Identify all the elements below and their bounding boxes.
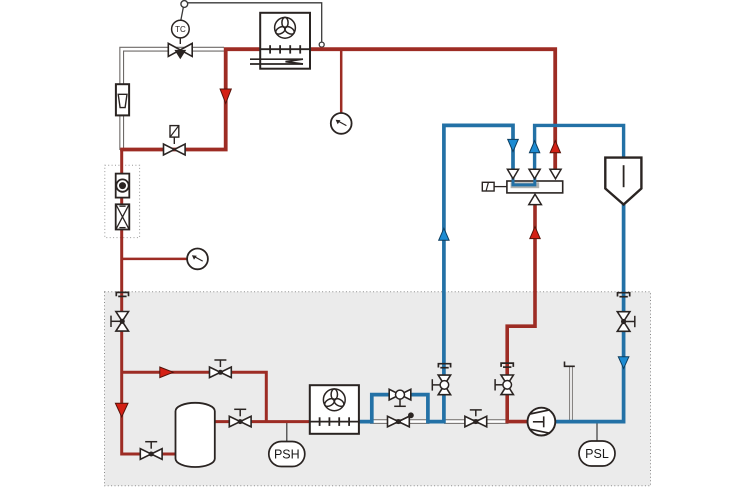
pressure switch PSH (269, 442, 305, 467)
filter F1 (square with cross) (116, 204, 130, 229)
mixing valve port A (507, 169, 518, 179)
union fitting separator drop (618, 293, 630, 297)
blue pipe: cold riser to mixing valve (444, 125, 513, 423)
TC valve plug (solid) (174, 50, 186, 59)
heater element coil (250, 59, 303, 64)
signal connector circle left (181, 1, 188, 8)
mixing valve port D (bottom) (529, 194, 542, 204)
red pipe: main hot loop top (120, 49, 555, 170)
svg-text:PSH: PSH (274, 448, 300, 462)
mixing valve port B (529, 169, 540, 179)
arrow red right (bypass branch) (160, 367, 173, 378)
arrow blue down (return into mixing valve) (508, 139, 519, 151)
mixing valve actuator (482, 182, 507, 191)
white pipe: drain segment 1 (outline) (370, 419, 430, 424)
control valve V10 (cold riser, vertical circle type) (432, 375, 450, 395)
red pipe: boiler outlet to fan-coil (213, 420, 311, 423)
signal wire TC to heater (186, 3, 321, 42)
signal wire PSH (286, 422, 288, 442)
union fitting left riser (116, 292, 128, 296)
drain valve V7 (capped) (388, 412, 414, 427)
union fitting cold riser (438, 364, 450, 368)
signal connector circle right (319, 42, 324, 47)
arrow red up (pump to mixing valve) (530, 227, 540, 239)
TC valve stem (179, 38, 181, 44)
shaded plant-room area (105, 292, 651, 486)
shut-off valve V12 (separator drop, vertical) (617, 312, 635, 332)
heater fan impeller (274, 17, 295, 38)
arrow blue up (cold riser) (439, 228, 449, 240)
blue pipe: mixing valve to separator tank (535, 125, 624, 170)
fan-coil unit box U2 (310, 385, 359, 434)
arrow red down (top branch) (220, 89, 231, 103)
arrow red up (hot riser to top main) (550, 141, 560, 153)
red pipe: left boiler drop (122, 150, 178, 455)
mixing valve M1 body (507, 176, 563, 193)
air separator tank T1 (605, 158, 641, 205)
shut-off valve V3 (left riser, vertical) (111, 312, 129, 332)
white pipe: TC valve run (outline) (122, 49, 224, 150)
sensor top bar (565, 362, 575, 367)
svg-text:PSL: PSL (585, 447, 609, 461)
union fitting hot riser (501, 363, 513, 367)
signal wire PSL (596, 422, 598, 442)
heater unit box U1 (260, 13, 310, 69)
controller TC (172, 20, 190, 38)
red pipe: mixing valve to pump (507, 204, 535, 422)
arrow blue down (separator drop) (618, 357, 629, 369)
pressure switch PSL (579, 441, 615, 466)
white pipe: suction segment 2 (outline) (444, 419, 509, 424)
signal wire TC drop (181, 7, 184, 21)
pressure gauge PI1 (top) (331, 113, 352, 134)
shut-off valve V9 (pump suction) (465, 410, 487, 427)
blue pipe: fan-coil out bypass (359, 395, 446, 422)
pressure gauge PI2 (left) (187, 249, 208, 270)
mixing valve port C (550, 169, 561, 179)
red pipe: gauge stub left (122, 258, 188, 261)
red pipe: gauge stub top (340, 51, 343, 114)
dotted box around filter unit (105, 165, 140, 237)
TC control valve V1 (168, 43, 192, 56)
bypass balancing valve V8 (circle type) (389, 389, 411, 406)
drain valve V5 (boiler inlet) (140, 442, 162, 460)
svg-text:TC: TC (175, 25, 186, 34)
solenoid valve V2 (164, 144, 186, 155)
control valve V11 (hot riser, vertical circle type) (495, 375, 513, 395)
shut-off valve V6 (boiler outlet) (229, 409, 251, 427)
arrow red down (boiler drop) (115, 403, 128, 417)
boiler tank B1 (176, 403, 215, 467)
pump unit P1 (square with impeller dot) (116, 174, 130, 198)
rotameter FI (116, 84, 129, 115)
balancing valve V4 (bypass branch) (210, 360, 232, 378)
fan-coil impeller (323, 389, 345, 411)
red pipe: boiler bypass branch (122, 372, 267, 421)
arrow blue up (mixing valve to tank header) (529, 141, 539, 153)
circulation pump P2 (528, 408, 556, 436)
white pipe: sensor dip tube (569, 367, 573, 422)
blue pipe: separator to pump suction (555, 204, 624, 422)
